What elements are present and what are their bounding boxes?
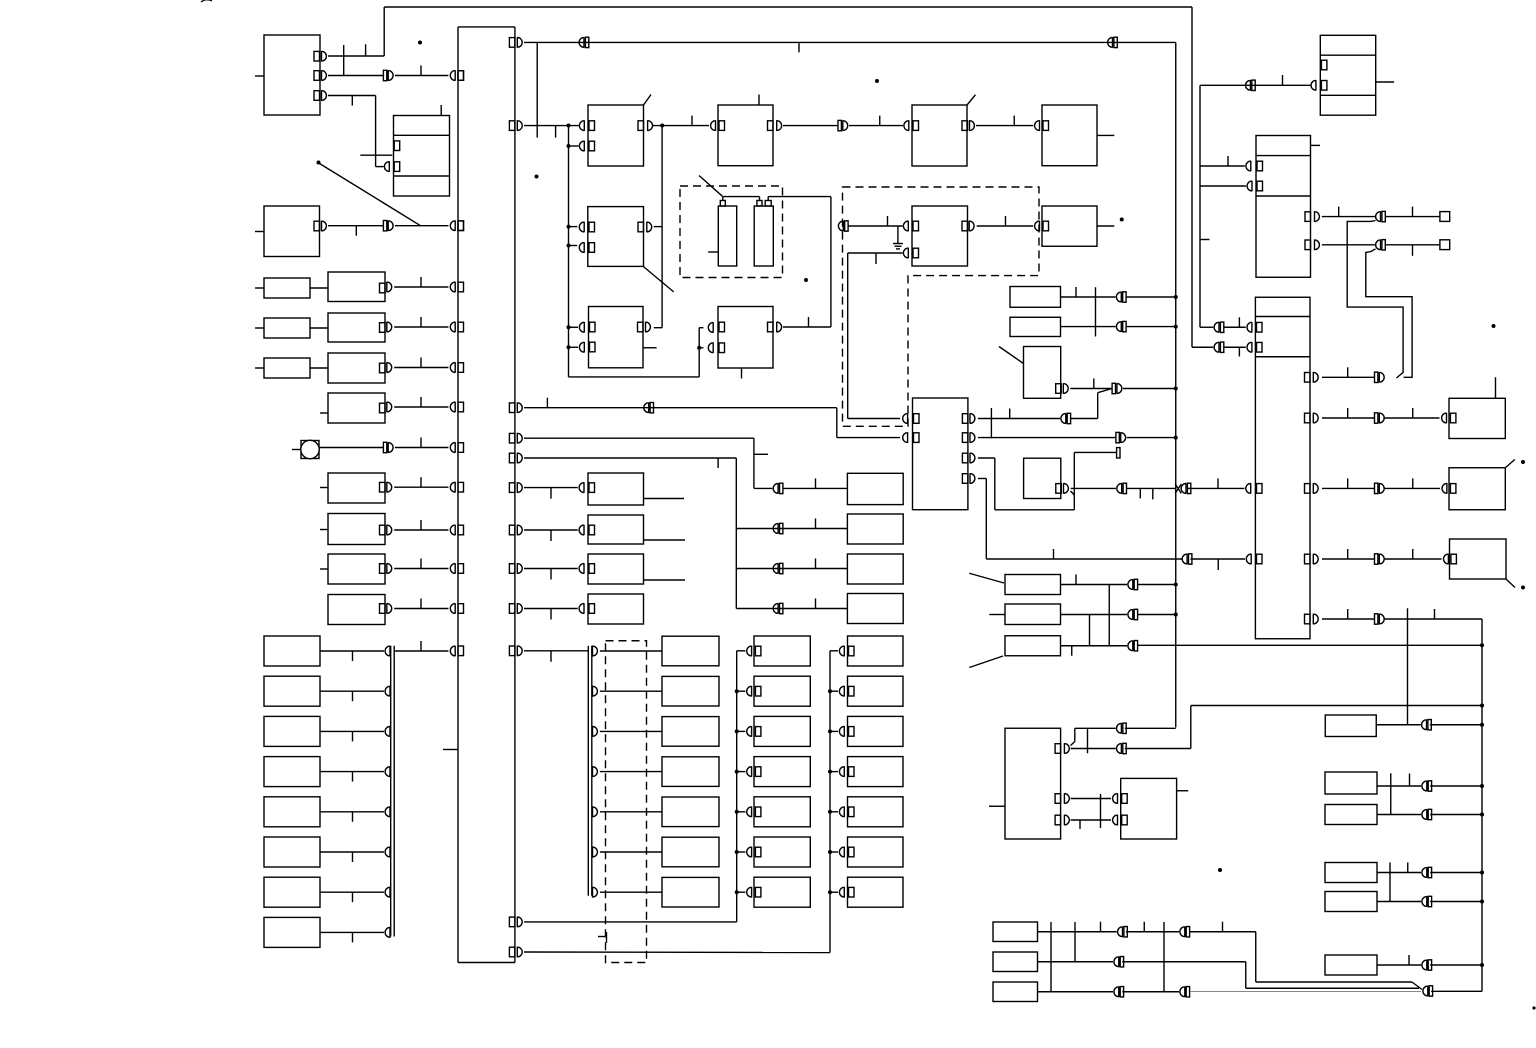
load box W2 (662, 676, 719, 706)
control box P (913, 398, 968, 510)
connector into box O pin2 (708, 342, 713, 353)
junction dot Y6 (735, 850, 739, 854)
load box AE (1325, 772, 1377, 794)
wire AE out (1377, 785, 1421, 787)
inline connector y559 west (1182, 554, 1187, 565)
trunk right pin y42.4 (509, 38, 515, 48)
inline connector G1a (1118, 926, 1123, 937)
resistor block 2 (264, 318, 310, 338)
wire A1 to top bus (328, 55, 384, 57)
trunk left pin y650.8 (458, 646, 464, 656)
connector into box C pin2 (579, 141, 584, 152)
decorative arc top (201, 0, 212, 2)
wire stack4 (320, 771, 384, 773)
inline connector y42 a (579, 37, 584, 48)
load box Z0 (847, 473, 903, 504)
wire W1 (600, 650, 662, 652)
inline connector AJ (1422, 896, 1427, 907)
wire bigbox y487.2 (387, 482, 392, 493)
inline connector A2 (383, 70, 386, 80)
wire W3 (600, 730, 662, 732)
load box W3 (662, 717, 719, 747)
trunk left pin y530 (458, 525, 464, 535)
wire bigbox y327 (387, 322, 392, 333)
load box stack8 (264, 917, 320, 947)
wire D-F b (849, 125, 903, 127)
wire W4 (600, 771, 662, 773)
wire bigbox y530 (387, 525, 392, 536)
wire AC b (1430, 724, 1482, 726)
connector Y3 (747, 726, 752, 737)
fuse box G2 (993, 952, 1038, 972)
junction box K2 (1255, 297, 1310, 639)
load box L (588, 473, 644, 505)
wire K2 out y619 (1322, 618, 1375, 620)
junction dot Y5 (735, 810, 739, 814)
connector into box AB (1444, 554, 1449, 565)
connector into K pin2 (1247, 181, 1252, 192)
connector into K pin1 (1246, 161, 1251, 172)
wire K out2 (1322, 244, 1375, 246)
wire y488 c (1188, 487, 1245, 489)
wire O out (783, 326, 831, 328)
junction S to riser (1071, 491, 1075, 495)
wire G3 out (1038, 991, 1114, 993)
wire P3 net (978, 457, 995, 459)
junction box K (1256, 136, 1311, 278)
bus Z vertical (829, 651, 831, 953)
connector box A (264, 35, 320, 115)
wire y488 to K2 (1127, 487, 1176, 489)
wire A2b (395, 75, 449, 77)
inline connector y488r (1375, 483, 1378, 493)
trunk connector y287 (450, 282, 455, 293)
inline connector y42 b (1108, 37, 1113, 48)
load box Zc1 (848, 636, 904, 666)
load box AK (1325, 955, 1377, 975)
junction dot near E (317, 161, 321, 165)
control box F (912, 105, 967, 166)
load box M (588, 515, 644, 544)
wire to box M3 (524, 608, 578, 610)
harness trunk (457, 27, 459, 963)
trunk right pin y407.7 (509, 403, 515, 413)
wire to box L (524, 487, 578, 489)
wire top bus (384, 6, 1192, 8)
wire AJ out (1377, 901, 1421, 903)
vertical x662 (661, 126, 663, 328)
wire Q2 out (1061, 326, 1116, 328)
wire B1b (395, 225, 449, 227)
load box Y2 (754, 676, 810, 706)
trunk left pin y568.5 (458, 564, 464, 574)
bus Y vertical (736, 651, 738, 922)
inline connector y608 (773, 603, 778, 614)
load box AH (1325, 805, 1377, 825)
connector Z7 (839, 887, 844, 898)
inline connector y488 east (1181, 483, 1186, 494)
pointer into enclosure 1 (699, 176, 722, 197)
wire y559 w2 (1191, 558, 1246, 560)
load box Y6 (754, 837, 810, 867)
load box Z1 (847, 514, 903, 544)
junction box J (1320, 35, 1375, 115)
bus2 D 1 (593, 646, 598, 657)
load box W4 (662, 757, 719, 787)
connector into box M3 (579, 603, 584, 614)
junction dot V (1521, 460, 1525, 464)
trunk right pin y921.9 (509, 917, 515, 927)
connector into box H pin1 (903, 221, 908, 232)
resistor block 3 (264, 358, 310, 378)
load box Y7 (754, 877, 810, 907)
wire bigbox y568.5 (387, 563, 392, 574)
wire stack6 (320, 851, 384, 853)
junction dot lone1 (1218, 868, 1222, 872)
inline connector R (1112, 383, 1115, 393)
load box Y3 (754, 716, 810, 746)
wire R b (1123, 388, 1176, 390)
connector Y6 (747, 847, 752, 858)
wire trunk y125 net (524, 125, 579, 127)
relay box S (1024, 458, 1061, 498)
wire AI b (1430, 872, 1482, 874)
wire trunk y952 to busZ (524, 951, 830, 954)
connector into box P pin2 (903, 432, 908, 443)
pointer F3 (969, 656, 1003, 668)
junction dot Z5 (828, 810, 832, 814)
wire AK out (1377, 964, 1421, 966)
trunk connector y608.5 (450, 603, 455, 614)
wire y418 b (1385, 417, 1440, 419)
trunk right pin y530 (509, 525, 515, 535)
wire bus1 to trunk (394, 650, 448, 652)
inline connector y619 (1375, 614, 1378, 624)
wire bigbox y367.5 (387, 362, 392, 373)
wire Q1 b (1126, 296, 1176, 298)
junction dot lone3 (418, 41, 422, 45)
wire R out (1070, 388, 1112, 390)
wire into east bus (1431, 990, 1482, 992)
inline connector G1b (1180, 926, 1185, 937)
connector Y5 (747, 807, 752, 818)
wire top bus drop (1191, 7, 1193, 347)
long vertical bus x1176 (1175, 42, 1177, 727)
trunk right pin y438.2 (509, 433, 515, 443)
load box Zc2 (848, 676, 904, 706)
relay capsule 2 (754, 206, 773, 266)
wire trunk y922 to busY (524, 921, 737, 923)
inline connector AK (1422, 960, 1427, 971)
load box Z2 (847, 554, 903, 584)
inline connector y559 (1375, 554, 1378, 564)
connector into N pin2 (579, 342, 584, 353)
load box W5 (662, 797, 719, 827)
pointer line C2 (643, 266, 674, 292)
wire G1 c (1190, 931, 1256, 933)
connector into box H pin2 (903, 248, 908, 259)
trunk right pin y125.6 (509, 121, 515, 131)
connector into box E (384, 161, 389, 172)
load box W6 (662, 837, 719, 867)
inline connector circle (383, 442, 386, 452)
trunk left pin y407 (458, 402, 464, 412)
inline connector G3b (1180, 986, 1185, 997)
fuse box Q2 (1010, 317, 1061, 336)
wire stack8 (320, 931, 384, 933)
bus2 D 7 (593, 887, 598, 898)
relay box R (1024, 347, 1061, 399)
ground symbol (897, 226, 899, 243)
dashed enclosure 2 (843, 187, 1040, 426)
load box big7 (328, 554, 385, 584)
bus2 D 2 (593, 686, 598, 697)
connector Z3 (839, 726, 844, 737)
wire F1 b (1137, 584, 1175, 586)
load box AI (1325, 863, 1377, 883)
wire AA out1 riser (1071, 742, 1075, 746)
east bus x1482 (1481, 619, 1483, 991)
load box Zc3 (848, 716, 904, 746)
trunk connector y327 (450, 322, 455, 333)
junction dots x1482 (1480, 643, 1484, 647)
trunk connector y568.5 (450, 563, 455, 574)
wire K2 p1 (1224, 326, 1246, 328)
bus2 D 3 (593, 726, 598, 737)
connector into box M2 (579, 563, 584, 574)
inline connector P1 (1061, 413, 1066, 424)
load box Zc4 (848, 757, 904, 787)
load box big6 (328, 514, 385, 545)
load box AJ (1325, 892, 1377, 912)
inline connector G123 east (1423, 986, 1428, 997)
wire P1 riser (1071, 418, 1098, 420)
vertical x1407 tick (1407, 608, 1409, 725)
load box U (1449, 398, 1505, 438)
load box stack1 (264, 636, 320, 666)
wire y559 b (1385, 558, 1442, 560)
wire relay top A (722, 196, 759, 198)
load box big8 (328, 595, 385, 625)
inline connector B1 (383, 221, 386, 231)
junction dot lone5 (875, 79, 879, 83)
load box big5 (328, 473, 385, 503)
trunk connector y651 (450, 646, 455, 657)
wire H out (977, 225, 1034, 227)
trunk left pin y225.7 (458, 221, 464, 231)
wire trunk y458 net (524, 457, 736, 459)
fuse box G1 (993, 922, 1038, 942)
wire stack3 (320, 730, 384, 732)
wire Q1 out (1061, 296, 1116, 298)
connector into C2 pin2 (579, 242, 584, 253)
load box stack6 (264, 837, 320, 867)
connector into box V (1442, 483, 1447, 494)
wire B1 (328, 225, 383, 227)
wire K2 out y377 (1322, 376, 1375, 378)
wire C out (653, 125, 709, 127)
connector Z4 (839, 766, 844, 777)
inline connector G3a (1114, 986, 1119, 997)
inline connector K1 (1376, 211, 1381, 222)
load box big1 (328, 272, 385, 302)
control box I (1042, 206, 1097, 246)
junction dot Y3 (735, 729, 739, 733)
terminal rect P3 (1117, 448, 1120, 458)
bus2 D 4 (593, 766, 598, 777)
connector into box U (1442, 413, 1447, 424)
wire K2 branch down (1366, 249, 1412, 377)
load box Zc6 (848, 837, 904, 867)
wire AI out (1377, 872, 1421, 874)
junction dot Z7 (828, 890, 832, 894)
control box C (588, 105, 644, 166)
load box Y4 (754, 757, 810, 787)
connector into K2 pin2 (1247, 342, 1252, 353)
connector into box F (904, 120, 909, 131)
junction dot Z3 (828, 729, 832, 733)
connector into N pin1 (579, 322, 584, 333)
junction dot Y7 (735, 890, 739, 894)
connector into K2 pin1 (1247, 322, 1252, 333)
wire C2 out (654, 226, 662, 228)
wire K1 branch down (1347, 221, 1403, 378)
inline connector Q2 (1116, 321, 1121, 332)
pointer line (320, 164, 421, 226)
control box H (912, 206, 968, 266)
wire P4 drop (978, 478, 986, 480)
inline connector AH (1422, 809, 1427, 820)
connector Y2 (747, 686, 752, 697)
connector into box J (1311, 80, 1316, 91)
trunk right pin y952 (509, 947, 515, 957)
wire AK b (1430, 964, 1482, 966)
wire AA out2 (1071, 748, 1116, 750)
inline connector AE (1422, 781, 1427, 792)
inline connector AI (1422, 867, 1427, 878)
pointer F1 (969, 573, 1004, 583)
junction dot K2 area (1492, 324, 1496, 328)
inline connector G2 (1114, 956, 1119, 967)
terminal square K1 (1440, 212, 1450, 222)
inline connector y347 (1214, 342, 1219, 353)
branch into K pin1 (1200, 165, 1245, 167)
wire N out (654, 327, 662, 329)
fuse box F2 (1005, 604, 1061, 625)
trunk right pin y487.6 (509, 483, 515, 493)
load box AF (1121, 778, 1177, 839)
wire to box H pin1 (848, 225, 902, 227)
wire y407 drop to P pin2 (836, 408, 838, 438)
inline connector F3 (1128, 640, 1133, 651)
load box big2 (328, 313, 385, 342)
wire y488 rb (1385, 487, 1440, 489)
trunk left pin y608.5 (458, 604, 464, 614)
wire stack1 (320, 650, 384, 652)
trunk right pin y608.5 (509, 604, 515, 614)
trunk left pin y75.5 (458, 71, 464, 81)
wire G2 out (1038, 961, 1114, 963)
control box C2 (588, 207, 644, 267)
wire into box Z0 (784, 487, 848, 489)
inline connector F1 (1128, 579, 1133, 590)
wire y559 long feed (986, 558, 1182, 560)
connector into box G (1035, 120, 1040, 131)
connector Y1 (747, 646, 752, 657)
trunk left pin y367.5 (458, 363, 464, 373)
junction dot right of I (1120, 218, 1124, 222)
fuse box F3 (1005, 636, 1061, 656)
load box big4 (328, 393, 385, 423)
wire trunk y651 to bus2 (524, 650, 588, 652)
connector into box L (579, 482, 584, 493)
load box Zc7 (848, 877, 904, 907)
wire circle out (319, 447, 383, 449)
inline connector AA2 (1117, 743, 1122, 754)
wire stack5 (320, 811, 384, 813)
wire K2 out y488 (1322, 487, 1375, 489)
junction dot Y4 (735, 770, 739, 774)
wire P2 b (1127, 437, 1176, 439)
connector Z2 (839, 686, 844, 697)
wire trunk y407 net (524, 407, 837, 409)
control box G (1042, 105, 1097, 166)
wire AH out (1377, 814, 1421, 816)
inline connector y377 (1375, 372, 1378, 382)
inline connector into H1 (838, 221, 843, 232)
wire G1 b (1126, 931, 1179, 933)
relay capsule 1 (718, 206, 736, 266)
wire N stub (643, 347, 657, 349)
connector into C2 pin1 (579, 222, 584, 233)
fuse box Q1 (1010, 287, 1061, 308)
trunk right pin y568.5 (509, 564, 515, 574)
wire trunk y438 net (524, 437, 754, 439)
wire AA2 b (1125, 748, 1191, 750)
fuse box F1 (1005, 575, 1061, 595)
wire AH b (1430, 814, 1482, 816)
bus2 D 5 (593, 807, 598, 818)
sensor circle (301, 441, 319, 459)
fuse box G3 (993, 982, 1038, 1002)
wire F1 out (1061, 584, 1128, 586)
wire W5 (600, 811, 662, 813)
wire K2 out y559 (1322, 558, 1375, 560)
wire W6 (600, 851, 662, 853)
wire stack7 (320, 891, 384, 893)
inline connector P2 (1116, 432, 1119, 442)
inline connector S east (1117, 483, 1122, 494)
control box D (718, 105, 773, 166)
inline connector F2 (1128, 609, 1133, 620)
trunk left pin y327 (458, 322, 464, 332)
terminal square K2 (1440, 240, 1450, 250)
inline connector AC (1422, 719, 1427, 730)
inline connector D-F (838, 120, 841, 130)
connector Z1 (839, 646, 844, 657)
dashed enclosure 1 (680, 186, 783, 278)
branch y528 to Z1 (736, 528, 847, 530)
inline connector K2 p1 (1214, 322, 1219, 333)
wire K2 out y418 (1322, 417, 1375, 419)
wire F3 out (1061, 645, 1128, 647)
wire G3 thin east (1190, 991, 1421, 993)
junction dot Z6 (828, 850, 832, 854)
connector into box I (1035, 221, 1040, 232)
wire y619 b (1385, 618, 1482, 620)
bus2 end mark (598, 936, 607, 938)
connector into AF pin1 (1113, 793, 1118, 804)
